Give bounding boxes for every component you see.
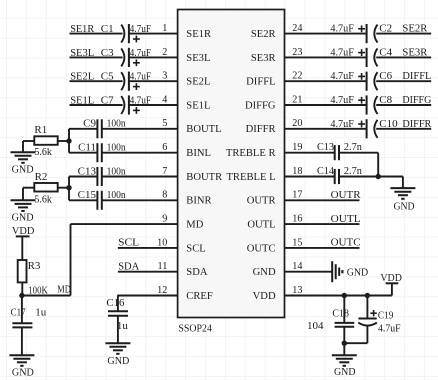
wire capacitor C7 to pin 4 [129,104,178,106]
node label SE2L [70,71,94,83]
svg-text:VDD: VDD [12,225,35,237]
pin 9 number [162,214,167,225]
svg-text:SE2R: SE2R [402,23,428,35]
svg-text:5: 5 [162,118,167,129]
capacitor C13 100n [97,167,101,186]
wire capacitor C4 to net SE3R [376,56,431,58]
capacitor C3 4.7uF polarized [121,48,140,67]
node junction R2 bias [66,185,71,190]
svg-text:10: 10 [157,237,167,248]
ground symbol at R2 [11,200,36,211]
capacitor C1 4.7uF polarized [121,24,140,43]
svg-text:SE1R: SE1R [70,23,95,35]
capacitor C17 1u [12,323,32,327]
value label 4.7uF of C4 [330,47,354,58]
node label SE3L [70,47,94,59]
value label 4.7uF of C19 [378,324,401,335]
svg-text:GND: GND [12,212,34,224]
svg-text:19: 19 [292,142,302,153]
svg-text:23: 23 [292,47,302,58]
pin 18 number [292,166,302,177]
svg-text:SDA: SDA [186,267,208,278]
pin 3 number [162,71,167,82]
pin 11 number [157,261,167,272]
svg-text:VDD: VDD [253,291,276,302]
svg-text:SE1R: SE1R [186,29,212,40]
pin 17 number [292,190,302,201]
value label 100n of C11 [107,142,126,154]
svg-text:2.7n: 2.7n [344,141,362,153]
svg-text:4.7uF: 4.7uF [330,95,354,106]
node junction bottom caps [342,341,347,346]
wire capacitor C8 to net DIFFG [376,104,431,106]
wire pin 19 to capacitor C13 [285,152,335,154]
svg-text:C18: C18 [332,308,349,320]
wire joining pin7/pin8 nets [68,177,70,201]
capacitor C11 100n [97,143,101,162]
svg-text:BOUTL: BOUTL [186,124,221,135]
wire pin 14 to ground [285,271,333,273]
svg-text:104: 104 [307,320,324,332]
svg-text:SE3R: SE3R [402,46,428,58]
power symbol VDD right [386,282,399,284]
wire node to capacitor C13 [69,176,97,178]
svg-text:100n: 100n [107,142,126,154]
svg-text:2: 2 [162,47,167,58]
ground label GND at C16 [107,355,129,367]
svg-text:4.7uF: 4.7uF [330,119,354,130]
svg-text:BINR: BINR [186,196,212,207]
designator label C19 [378,309,394,321]
ground label GND at C17 [12,366,34,378]
svg-text:4.7uF: 4.7uF [330,71,354,82]
node junction C19 on rail [365,293,370,298]
svg-text:DIFFR: DIFFR [402,118,432,130]
svg-text:4.7uF: 4.7uF [330,47,354,58]
capacitor C18 104 [335,323,355,327]
wire pin 21 to capacitor C8 [285,104,367,106]
value label C5 [101,71,114,83]
svg-text:15: 15 [292,237,302,248]
svg-text:CREF: CREF [186,291,213,302]
wire R3 to junction [21,282,23,295]
ground symbol at C18/C19 [332,355,357,366]
pin 19 number [292,142,302,153]
svg-text:13: 13 [292,285,302,296]
power symbol VDD left [16,236,30,260]
pin 10 number [157,237,167,248]
value label 100K of R3 [28,284,48,296]
ground label GND at C18/C19 [334,366,356,378]
svg-text:4.7uF: 4.7uF [330,24,354,35]
designator label R1 [34,124,47,136]
designator label C8 [379,94,392,106]
svg-text:GND: GND [394,200,415,212]
svg-text:4: 4 [162,94,167,105]
resistor R1 5.6k [34,136,57,145]
svg-text:OUTL: OUTL [247,220,275,231]
svg-text:5.6k: 5.6k [34,146,52,158]
wire net SE1L to capacitor C7 [70,104,123,106]
value label 100n of C9 [107,118,126,130]
svg-text:24: 24 [292,23,302,34]
wire C13 down to C14 net [339,153,378,177]
svg-text:SE2R: SE2R [251,29,277,40]
pin 16 number [292,214,302,225]
capacitor C13 2.7n [335,145,339,160]
node label DIFFR [402,118,432,130]
svg-text:OUTC: OUTC [247,243,276,254]
ground symbol at R1 [11,152,36,163]
wire capacitor C9 to pin 5 [102,128,178,130]
wire pin 10 SCL stub [118,247,178,249]
svg-text:100n: 100n [107,165,126,177]
power label VDD left [12,225,35,237]
svg-text:1: 1 [162,23,167,34]
designator label R3 [28,260,41,272]
node label OUTL [331,213,361,225]
svg-text:R1: R1 [34,124,47,136]
wire pin 18 to capacitor C14 [285,176,335,178]
wire capacitor C10 to net DIFFR [376,128,431,130]
svg-text:20: 20 [292,118,302,129]
node label OUTR [331,189,362,201]
designator label C15 [78,189,97,201]
capacitor C2 4.7uF polarized [358,24,377,43]
svg-text:SE2L: SE2L [186,77,210,88]
wire capacitor C11 to pin 6 [102,152,178,154]
wire pin 15 OUTC stub [285,247,360,249]
wire C17 to ground [21,327,23,355]
capacitor C8 4.7uF polarized [358,95,377,114]
svg-text:C16: C16 [106,297,124,309]
wire capacitor C5 to pin 3 [129,80,178,82]
wire R1 left to ground [23,141,34,152]
pin 21 number [292,94,302,105]
svg-text:17: 17 [292,190,302,201]
pin 24 number [292,23,302,34]
value label 1u of C16 [117,320,128,332]
designator label C9 [83,118,96,130]
wire capacitor C1 to pin 1 [129,33,178,35]
wire capacitor C13 to pin 7 [102,176,178,178]
value label 4.7uF of C1 [130,24,152,35]
capacitor C19 4.7uF polarized [358,319,377,326]
node label SDA [118,260,139,272]
svg-text:SE3R: SE3R [251,53,277,64]
node label DIFFG [402,94,431,106]
svg-text:GND: GND [253,267,276,278]
wire pin 24 to capacitor C2 [285,33,367,35]
svg-text:100K: 100K [28,284,48,296]
pin 4 number [162,94,167,105]
node label DIFFL [402,70,431,82]
svg-text:1u: 1u [35,307,47,319]
svg-text:16: 16 [292,214,302,225]
pin 20 number [292,118,302,129]
designator label C13 [78,165,97,177]
value label 104 of C18 [307,320,324,332]
value label 4.7uF of C6 [330,71,354,82]
svg-text:7: 7 [162,166,167,177]
svg-text:DIFFL: DIFFL [402,70,431,82]
polarity plus of C19 [370,310,376,316]
power label VDD right [380,272,402,284]
svg-text:C15: C15 [78,189,97,201]
capacitor C7 4.7uF polarized [121,95,140,114]
node label MD [57,284,71,296]
capacitor C15 100n [97,191,101,210]
wire pin 13 VDD rail [285,283,392,295]
svg-text:C9: C9 [83,118,96,130]
svg-text:100n: 100n [107,118,126,130]
wire rail to C18 [343,296,345,323]
svg-text:12: 12 [157,285,167,296]
wire pin 9 MD net [22,224,178,295]
svg-text:OUTL: OUTL [331,213,361,225]
ground symbol at pin 14 [332,261,342,282]
ground symbol at C16 [105,343,130,354]
value label 4.7uF of C8 [330,95,354,106]
svg-text:SE1L: SE1L [70,94,94,106]
wire C16 to ground [117,316,119,343]
svg-text:GND: GND [12,164,34,176]
svg-text:9: 9 [162,214,167,225]
value label 5.6k of R1 [34,146,52,158]
capacitor C9 100n [97,119,101,138]
pin 14 number [292,261,302,272]
svg-text:GND: GND [107,355,129,367]
svg-text:R2: R2 [35,171,48,183]
svg-text:22: 22 [292,71,302,82]
svg-text:DIFFR: DIFFR [246,124,277,135]
svg-text:OUTR: OUTR [331,189,362,201]
pin 7 number [162,166,167,177]
svg-text:100n: 100n [107,189,126,201]
value label C1 [101,23,114,35]
svg-text:GND: GND [12,366,34,378]
designator label C10 [379,118,398,130]
wire capacitor C2 to net SE2R [376,33,431,35]
ground label GND treble net [394,200,415,212]
svg-text:SCL: SCL [186,243,205,254]
wire R2 right to junction [58,187,69,189]
svg-text:SCL: SCL [118,237,139,249]
node label SCL [118,237,139,249]
svg-text:BINL: BINL [186,148,211,159]
value label 2.7n of C14 [344,165,362,177]
svg-text:GND: GND [347,266,369,278]
node label SE1R [70,23,95,35]
resistor R3 100K [18,260,27,282]
svg-text:SDA: SDA [118,260,139,272]
node label OUTC [331,237,361,249]
svg-text:TREBLE L: TREBLE L [226,172,275,183]
wire pin 16 OUTL stub [285,223,360,225]
pin 8 number [162,190,167,201]
svg-text:2.7n: 2.7n [344,165,362,177]
wire net SE2L to capacitor C5 [70,80,123,82]
svg-text:OUTC: OUTC [331,237,361,249]
svg-text:DIFFL: DIFFL [246,77,275,88]
pin 23 number [292,47,302,58]
value label 2.7n of C13 [344,141,362,153]
node junction C18 on rail [342,293,347,298]
wire node to capacitor C15 [69,199,97,201]
wire junction to C17 [21,296,23,324]
svg-text:6: 6 [162,142,167,153]
resistor R2 5.6k [34,183,57,192]
svg-text:C17: C17 [11,307,26,319]
designator label C11 [78,142,96,154]
svg-text:21: 21 [292,94,302,105]
value label 4.7uF of C2 [330,24,354,35]
svg-text:C7: C7 [101,94,114,106]
svg-text:R3: R3 [28,260,41,272]
capacitor C5 4.7uF polarized [121,72,140,91]
wire node to capacitor C9 [69,128,97,130]
node junction C13/C14 [376,174,381,179]
designator label C4 [379,46,392,58]
value label 100n of C13 [107,165,126,177]
designator label C14 [317,165,334,177]
svg-text:GND: GND [334,366,356,378]
pin 12 number [157,285,167,296]
value label 5.6k of R2 [34,193,52,205]
svg-text:5.6k: 5.6k [34,193,52,205]
value label C3 [101,47,114,59]
wire joining pin5/pin6 nets [68,129,70,153]
value label 1u of C17 [35,307,47,319]
svg-text:VDD: VDD [380,272,402,284]
node label SE3R [402,46,428,58]
pin 13 number [292,285,302,296]
wire pin 22 to capacitor C6 [285,80,367,82]
pin 6 number [162,142,167,153]
svg-text:4.7uF: 4.7uF [378,324,401,335]
wire net SE1R to capacitor C1 [70,33,123,35]
designator label C2 [379,23,392,35]
svg-text:C1: C1 [101,23,114,35]
node junction R3/C17/MD [19,293,24,298]
ground label GND at R1 [12,164,34,176]
capacitor C14 2.7n [335,169,339,184]
ground symbol treble net [390,188,415,199]
svg-text:C19: C19 [378,309,394,321]
designator label R2 [35,171,48,183]
svg-text:8: 8 [162,190,167,201]
wire node to capacitor C11 [69,152,97,154]
pin 5 number [162,118,167,129]
value label 4.7uF of C5 [130,72,152,83]
capacitor C4 4.7uF polarized [358,48,377,67]
wire capacitor C15 to pin 8 [102,199,178,201]
designator label C13 [317,141,334,153]
value label 100n of C15 [107,189,126,201]
designator label C16 [106,297,124,309]
wire C18 to bottom junction [343,327,345,344]
svg-text:SE3L: SE3L [186,53,210,64]
designator label C17 [11,307,26,319]
svg-text:DIFFG: DIFFG [402,94,431,106]
svg-text:C13: C13 [78,165,97,177]
svg-text:C5: C5 [101,71,114,83]
wire C14 to ground [339,177,403,189]
wire capacitor C6 to net DIFFL [376,80,431,82]
svg-text:SE3L: SE3L [70,47,94,59]
svg-text:DIFFG: DIFFG [245,100,276,111]
value label 4.7uF of C3 [130,48,152,59]
svg-text:SSOP24: SSOP24 [178,323,212,334]
pin 2 number [162,47,167,58]
value label 4.7uF of C10 [330,119,354,130]
node label SE1L [70,94,94,106]
wire pin 12 CREF to C16 [117,296,177,312]
svg-text:C14: C14 [317,165,334,177]
ground symbol at C17 [9,355,34,366]
svg-text:C13: C13 [317,141,334,153]
ground label GND at pin 14 [347,266,369,278]
svg-text:3: 3 [162,71,167,82]
svg-text:C3: C3 [101,47,114,59]
pin 15 number [292,237,302,248]
svg-text:MD: MD [186,220,203,231]
designator label C18 [332,308,349,320]
wire rail to C19 [366,296,368,319]
IC U1 part label SSOP24 [178,323,212,334]
designator label C6 [379,70,392,82]
wire R2 left to ground [23,188,34,201]
IC U1 SSOP24 body [178,10,285,318]
pin 22 number [292,71,302,82]
node label SE2R [402,23,428,35]
svg-text:14: 14 [292,261,302,272]
svg-text:11: 11 [157,261,167,272]
svg-text:MD: MD [57,284,71,296]
capacitor C16 1u [108,311,128,316]
svg-text:TREBLE R: TREBLE R [226,148,277,159]
svg-text:SE1L: SE1L [186,100,210,111]
svg-text:OUTR: OUTR [247,196,277,207]
wire pin 23 to capacitor C4 [285,56,367,58]
wire net SE3L to capacitor C3 [70,56,123,58]
wire junction to ground [343,343,345,355]
wire R1 right to junction [58,140,69,142]
svg-text:SE2L: SE2L [70,71,94,83]
wire capacitor C3 to pin 2 [129,56,178,58]
wire pin 20 to capacitor C10 [285,128,367,130]
capacitor C10 4.7uF polarized [358,119,377,138]
capacitor C6 4.7uF polarized [358,72,377,91]
wire pin 17 OUTR stub [285,199,360,201]
svg-text:18: 18 [292,166,302,177]
wire C19 to bottom junction [344,326,367,344]
value label 4.7uF of C7 [130,95,152,106]
node junction R1 bias [66,138,71,143]
ground label GND at R2 [12,212,34,224]
svg-text:BOUTR: BOUTR [186,172,223,183]
value label C7 [101,94,114,106]
pin 1 number [162,23,167,34]
wire pin 11 SDA stub [118,271,178,273]
svg-text:C11: C11 [78,142,96,154]
